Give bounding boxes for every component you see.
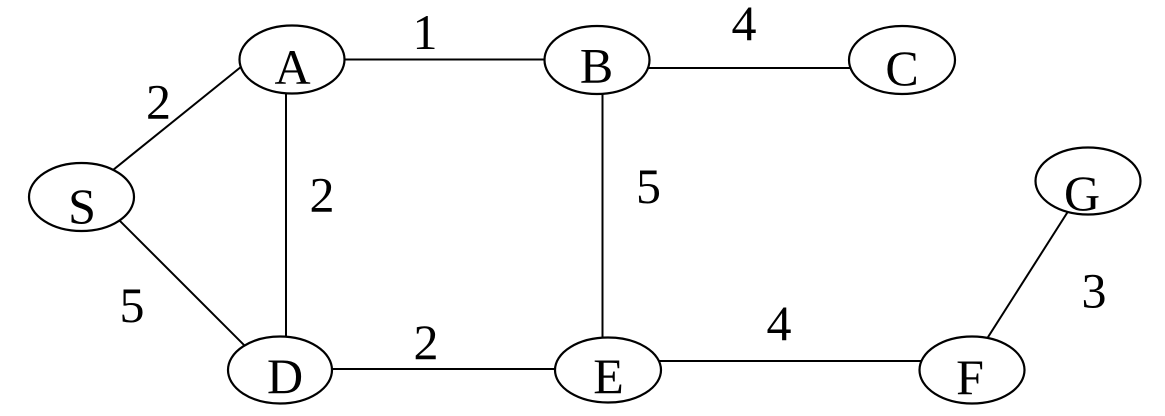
wire edge E-F: [615, 360, 965, 362]
node B: [545, 26, 650, 94]
svg-text:C: C: [885, 40, 918, 96]
svg-text:G: G: [1064, 165, 1100, 221]
svg-text:4: 4: [767, 295, 792, 351]
wire edge D-E: [285, 368, 600, 370]
svg-text:E: E: [593, 348, 624, 404]
wire edge A-B: [292, 59, 597, 61]
node C: [849, 26, 955, 96]
node S: [29, 163, 134, 234]
svg-text:3: 3: [1082, 263, 1107, 319]
svg-text:D: D: [267, 348, 303, 404]
svg-text:1: 1: [413, 4, 438, 60]
wire edge S-A: [95, 58, 252, 185]
svg-text:2: 2: [310, 167, 335, 223]
node A: [240, 26, 345, 96]
svg-text:4: 4: [732, 0, 757, 51]
node G: [1036, 148, 1141, 222]
wire edge S-D: [100, 201, 260, 361]
svg-text:2: 2: [146, 74, 171, 130]
svg-text:B: B: [580, 38, 613, 94]
wire edge F-G: [980, 193, 1080, 350]
svg-text:5: 5: [636, 158, 661, 214]
svg-text:F: F: [956, 349, 984, 405]
svg-text:A: A: [274, 39, 310, 95]
node E: [555, 338, 661, 405]
wire edge B-E: [602, 70, 604, 360]
svg-text:5: 5: [120, 277, 145, 333]
wire edge A-D: [285, 70, 287, 360]
node F: [920, 337, 1025, 406]
svg-text:2: 2: [414, 314, 439, 370]
wire edge B-C: [605, 67, 895, 69]
svg-text:S: S: [68, 178, 96, 234]
node D: [228, 337, 332, 405]
